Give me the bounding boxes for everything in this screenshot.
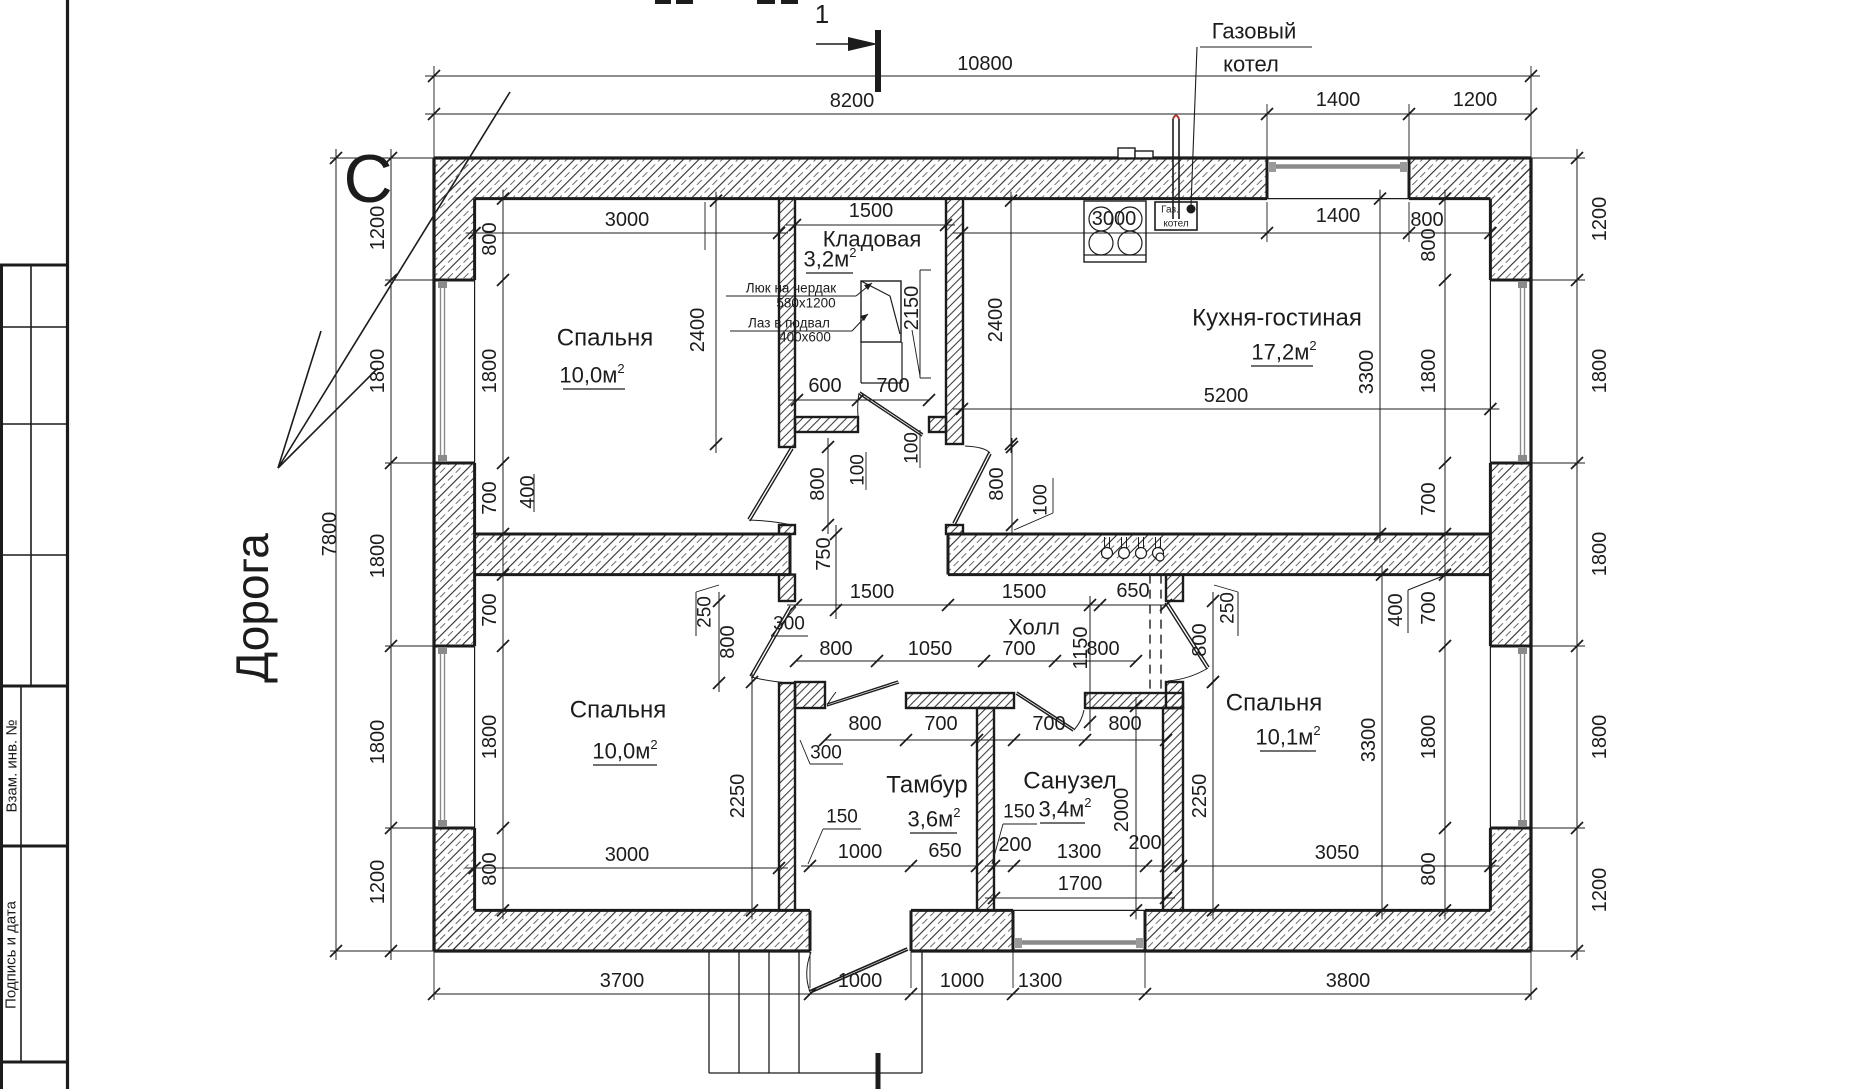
dim 3300 kitchen	[1356, 190, 1386, 543]
dim 250 800 left	[695, 585, 740, 692]
svg-text:1800: 1800	[1418, 715, 1440, 760]
dim 3000 bedroom BL	[466, 844, 788, 874]
svg-text:3800: 3800	[1326, 970, 1371, 992]
dim 7800	[319, 149, 342, 960]
svg-text:700: 700	[1418, 482, 1440, 515]
svg-text:1000: 1000	[838, 970, 883, 992]
door kitchen leaf	[953, 446, 991, 525]
title block grid	[0, 265, 68, 1089]
dim 2150 кладовая	[901, 270, 931, 378]
svg-text:1800: 1800	[479, 349, 501, 394]
dim 1150 hall	[1070, 596, 1096, 731]
svg-text:1200: 1200	[1589, 868, 1611, 913]
svg-text:1300: 1300	[1018, 970, 1063, 992]
svg-text:Лаз в подвал: Лаз в подвал	[748, 316, 830, 331]
svg-text:1800: 1800	[367, 349, 389, 394]
svg-text:200: 200	[1128, 832, 1161, 854]
room area 10,0 TL	[559, 361, 625, 390]
door entrance leaf	[807, 948, 908, 993]
section mark 1 bottom	[876, 1053, 881, 1089]
hall chain 800 700 700 800	[819, 713, 1172, 746]
room label Спальня BL	[570, 697, 666, 724]
svg-text:800: 800	[479, 222, 501, 255]
svg-text:800: 800	[1418, 852, 1440, 885]
title block label Взам. инв. №	[4, 720, 21, 813]
svg-text:1300: 1300	[1057, 841, 1102, 863]
svg-text:2150: 2150	[901, 286, 923, 331]
svg-text:1050: 1050	[908, 638, 953, 660]
svg-text:1800: 1800	[1589, 349, 1611, 394]
svg-text:Спальня: Спальня	[1226, 690, 1322, 717]
note 150 san	[992, 802, 1037, 865]
note 300 b	[800, 740, 843, 764]
svg-text:3300: 3300	[1358, 718, 1380, 763]
svg-text:600: 600	[808, 375, 841, 397]
mid wall hatch	[475, 534, 1491, 575]
svg-text:300: 300	[773, 614, 805, 635]
dim 5200 kitchen	[953, 385, 1499, 415]
svg-text:Дорога: Дорога	[226, 533, 278, 683]
svg-text:800: 800	[986, 467, 1008, 500]
dim 800 door TL	[807, 438, 834, 534]
left inner chain	[479, 190, 539, 920]
svg-text:3,6м2: 3,6м2	[908, 805, 961, 832]
door санузел leaf	[1016, 692, 1084, 731]
svg-text:1200: 1200	[1453, 89, 1498, 111]
svg-text:Подпись и дата: Подпись и дата	[3, 900, 20, 1009]
exterior wall hatch	[434, 158, 1531, 951]
porch and steps	[709, 951, 922, 1073]
svg-text:1800: 1800	[1589, 532, 1611, 577]
svg-text:Холл: Холл	[1008, 615, 1060, 640]
svg-text:1800: 1800	[479, 715, 501, 760]
label Газовый котел	[1191, 19, 1312, 207]
hall chain 1500 1500 650	[787, 580, 1172, 611]
svg-text:150: 150	[826, 807, 858, 828]
svg-text:800: 800	[479, 852, 501, 885]
svg-text:8200: 8200	[830, 90, 875, 112]
svg-text:10800: 10800	[957, 53, 1013, 75]
svg-text:3,4м2: 3,4м2	[1039, 795, 1092, 822]
svg-text:7800: 7800	[319, 512, 341, 557]
svg-text:1800: 1800	[367, 534, 389, 579]
room area 10,1	[1255, 723, 1320, 752]
door bedroom TL leaf	[748, 447, 793, 525]
top extension lines	[434, 66, 1531, 250]
svg-text:650: 650	[1116, 580, 1149, 602]
svg-text:котел: котел	[1223, 52, 1279, 77]
svg-text:800: 800	[807, 467, 829, 500]
svg-text:800: 800	[1418, 228, 1440, 261]
dim 2250 bedroom BR	[1189, 673, 1219, 919]
svg-text:1200: 1200	[1589, 197, 1611, 242]
svg-text:800: 800	[1410, 209, 1443, 231]
svg-text:1500: 1500	[1002, 581, 1047, 603]
svg-text:17,2м2: 17,2м2	[1251, 338, 1316, 365]
svg-text:3300: 3300	[1356, 350, 1378, 395]
svg-text:800: 800	[1189, 623, 1211, 656]
svg-text:800: 800	[848, 713, 881, 735]
svg-text:200: 200	[998, 834, 1031, 856]
dim 750 hall	[813, 525, 842, 619]
hatch to attic symbol	[861, 281, 902, 383]
sheet frame vertical line	[66, 0, 69, 1089]
partition hatch	[779, 199, 1183, 911]
svg-text:3000: 3000	[1092, 208, 1137, 230]
svg-text:700: 700	[1418, 591, 1440, 624]
svg-text:580х1200: 580х1200	[776, 296, 835, 311]
svg-text:3,2м2: 3,2м2	[804, 245, 857, 272]
mid wall outline	[475, 534, 1491, 575]
note 100 kitchen	[1014, 478, 1053, 530]
svg-text:1: 1	[815, 0, 829, 29]
svg-text:250: 250	[1218, 592, 1239, 624]
svg-text:700: 700	[876, 375, 909, 397]
svg-text:Тамбур: Тамбур	[886, 772, 967, 799]
svg-text:700: 700	[924, 713, 957, 735]
road label Дорога	[226, 533, 278, 683]
svg-text:1400: 1400	[1316, 89, 1361, 111]
dim 600 700 кладовая	[788, 375, 935, 406]
window glazing	[438, 162, 1527, 948]
svg-text:100: 100	[1031, 484, 1052, 516]
room area 17,2	[1251, 338, 1317, 367]
dim 2400 bedroom TL	[687, 192, 722, 453]
dim 3300 bedroom BR	[1358, 566, 1388, 920]
dim 3000 bedroom TL	[466, 209, 788, 239]
svg-text:Спальня: Спальня	[557, 325, 653, 352]
room label Санузел	[1023, 768, 1117, 795]
right inner chain	[1385, 190, 1451, 920]
svg-text:800: 800	[1108, 713, 1141, 735]
svg-text:котел: котел	[1163, 219, 1189, 230]
svg-text:400: 400	[1385, 593, 1407, 626]
тамбур chain 1000 650	[801, 840, 983, 872]
svg-text:10,0м2: 10,0м2	[559, 361, 624, 388]
svg-text:3000: 3000	[605, 844, 650, 866]
svg-text:800: 800	[717, 625, 739, 658]
svg-text:2250: 2250	[1189, 774, 1211, 819]
svg-text:1800: 1800	[367, 720, 389, 765]
stove	[1084, 201, 1146, 262]
svg-text:Кухня-гостиная: Кухня-гостиная	[1192, 305, 1362, 332]
svg-text:1700: 1700	[1058, 873, 1103, 895]
door тамбур leaf	[827, 681, 899, 706]
left outer chain	[330, 149, 434, 960]
dim 250 800 right	[1189, 585, 1239, 691]
svg-text:Газовый: Газовый	[1212, 19, 1297, 44]
labels люк лаз	[726, 281, 872, 345]
svg-text:Спальня: Спальня	[570, 697, 666, 724]
svg-text:1800: 1800	[1589, 715, 1611, 760]
note 300 a	[771, 607, 808, 636]
door bedroom BR leaf	[1165, 601, 1209, 681]
door кладовая leaf	[858, 392, 923, 436]
exterior wall outer outline	[434, 158, 1531, 951]
dim 800 door kitchen	[986, 438, 1018, 534]
svg-text:650: 650	[928, 840, 961, 862]
right outer chain	[1531, 149, 1611, 960]
exterior wall inner outline	[475, 199, 1491, 911]
title block label Подпись и дата	[3, 900, 20, 1009]
svg-text:10,0м2: 10,0м2	[592, 737, 657, 764]
svg-text:2400: 2400	[985, 298, 1007, 343]
dim 2400 kitchen	[985, 192, 1017, 453]
room label Кладовая	[823, 227, 922, 252]
north arrow	[278, 92, 510, 468]
svg-text:5200: 5200	[1204, 385, 1249, 407]
svg-text:1200: 1200	[367, 860, 389, 905]
svg-text:3050: 3050	[1315, 842, 1360, 864]
room label Спальня BR	[1226, 690, 1322, 717]
room label Кухня-гостиная	[1192, 305, 1362, 332]
room area 3,4	[1039, 795, 1092, 824]
svg-text:2400: 2400	[687, 308, 709, 353]
dim 1700 san	[985, 873, 1175, 904]
svg-text:250: 250	[695, 596, 716, 628]
svg-text:Взам. инв. №: Взам. инв. №	[4, 720, 21, 813]
north label С	[343, 141, 392, 217]
svg-text:Санузел: Санузел	[1023, 768, 1117, 795]
room area 3,2	[804, 245, 857, 274]
note 150 тамбур	[808, 807, 861, 865]
svg-text:150: 150	[1003, 802, 1035, 823]
dim kitchen inner chain	[953, 205, 1496, 239]
svg-text:С: С	[343, 141, 392, 217]
san chain 200 1300 200	[985, 832, 1172, 872]
svg-text:750: 750	[813, 537, 835, 570]
svg-text:1150: 1150	[1070, 626, 1092, 669]
hall chain 800 1050 700 800	[790, 638, 1142, 667]
room label Спальня TL	[557, 325, 653, 352]
bottom outer chain	[428, 951, 1537, 1000]
svg-text:3000: 3000	[605, 209, 650, 231]
svg-text:1500: 1500	[849, 200, 894, 222]
svg-text:3700: 3700	[600, 970, 645, 992]
cropped title glyphs	[655, 0, 798, 4]
dim 8200 1400 1200	[425, 89, 1537, 120]
room area 10,0 BL	[592, 737, 657, 766]
svg-text:300: 300	[810, 743, 842, 764]
gas boiler	[1118, 116, 1197, 231]
svg-text:100: 100	[848, 454, 869, 486]
dim 10800	[425, 53, 1540, 82]
svg-text:Газ.: Газ.	[1161, 205, 1179, 216]
room area 3,6	[908, 805, 961, 834]
svg-text:1800: 1800	[1418, 349, 1440, 394]
note 100 кладовая	[902, 430, 923, 468]
room label Холл	[1008, 615, 1060, 640]
dim 2250 bedroom BL	[727, 673, 758, 919]
svg-text:1200: 1200	[367, 206, 389, 251]
room label Тамбур	[886, 772, 967, 799]
svg-text:Люк на чердак: Люк на чердак	[746, 281, 836, 296]
svg-text:700: 700	[479, 481, 501, 514]
svg-text:100: 100	[902, 432, 923, 464]
svg-text:400х600: 400х600	[779, 330, 831, 345]
svg-text:2250: 2250	[727, 774, 749, 819]
dim 2000 san	[1111, 697, 1142, 919]
window and door jambs	[434, 158, 1531, 951]
door bedroom BL leaf	[750, 606, 792, 683]
svg-text:1400: 1400	[1316, 205, 1361, 227]
partition outlines	[779, 199, 1183, 911]
svg-text:10,1м2: 10,1м2	[1255, 723, 1320, 750]
svg-text:700: 700	[1032, 713, 1065, 735]
svg-text:1000: 1000	[940, 970, 985, 992]
note 100 TL	[848, 452, 869, 490]
svg-text:700: 700	[479, 593, 501, 626]
dim 3050 bedroom BR	[1172, 842, 1499, 872]
svg-text:1500: 1500	[850, 581, 895, 603]
svg-text:800: 800	[819, 638, 852, 660]
section mark 1 top	[815, 0, 878, 92]
dim 1500 кладовая	[786, 200, 955, 231]
svg-text:1000: 1000	[838, 841, 883, 863]
svg-text:400: 400	[517, 475, 539, 508]
svg-text:700: 700	[1002, 638, 1035, 660]
dashed opening lines	[1150, 575, 1161, 692]
heating risers	[1102, 537, 1165, 561]
